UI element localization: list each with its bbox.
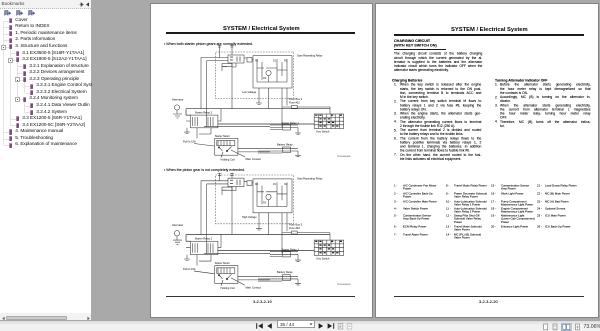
svg-text:R1: R1 — [255, 182, 259, 186]
svg-text:Pull-In 15A: Pull-In 15A — [183, 140, 196, 144]
svg-text:Main Contact: Main Contact — [246, 157, 262, 161]
svg-text:Low Voltage: Low Voltage — [242, 90, 257, 94]
svg-text:Starter Relay 1: Starter Relay 1 — [282, 121, 300, 125]
svg-text:Key Switch: Key Switch — [317, 257, 330, 261]
svg-text:Starter Motor: Starter Motor — [215, 134, 230, 138]
svg-text:Starter Motor: Starter Motor — [215, 261, 230, 265]
svg-text:D1: D1 — [273, 59, 277, 63]
svg-text:R2: R2 — [284, 182, 288, 186]
svg-text:Battery Relay: Battery Relay — [277, 270, 293, 274]
svg-text:Starter Relay 1: Starter Relay 1 — [282, 247, 300, 251]
svg-text:R3: R3 — [263, 200, 267, 204]
svg-text:Holding Coil: Holding Coil — [221, 286, 235, 290]
svg-text:Fuse Box 3: Fuse Box 3 — [289, 97, 303, 101]
svg-text:T1V1-03-03-01: T1V1-03-03-01 — [337, 156, 351, 158]
svg-text:Starter Relay 2: Starter Relay 2 — [195, 110, 213, 114]
svg-text:Battery Relay: Battery Relay — [277, 142, 293, 146]
svg-text:Fuse #22: Fuse #22 — [289, 226, 300, 230]
svg-text:Holding Coil: Holding Coil — [221, 158, 235, 162]
svg-text:Main Contact: Main Contact — [246, 285, 262, 289]
svg-text:R1: R1 — [255, 59, 259, 63]
svg-text:Key Switch: Key Switch — [317, 130, 330, 134]
svg-text:R3: R3 — [263, 76, 267, 80]
svg-text:Start Repeating Relay: Start Repeating Relay — [297, 54, 323, 58]
svg-text:Alternator: Alternator — [172, 223, 183, 227]
svg-text:R2: R2 — [284, 59, 288, 63]
svg-text:T1V1-03-03-02: T1V1-03-03-02 — [337, 284, 351, 286]
svg-text:Start Repeating Relay: Start Repeating Relay — [297, 177, 323, 181]
svg-text:High Voltage: High Voltage — [242, 215, 257, 219]
svg-text:Fuse #22: Fuse #22 — [289, 101, 300, 105]
svg-text:Starter Relay 2: Starter Relay 2 — [195, 236, 213, 240]
svg-text:Alternator: Alternator — [172, 98, 183, 102]
svg-text:Pull-In 15A: Pull-In 15A — [183, 267, 196, 271]
svg-text:Fuse Box 3: Fuse Box 3 — [289, 223, 303, 227]
svg-text:D1: D1 — [273, 182, 277, 186]
